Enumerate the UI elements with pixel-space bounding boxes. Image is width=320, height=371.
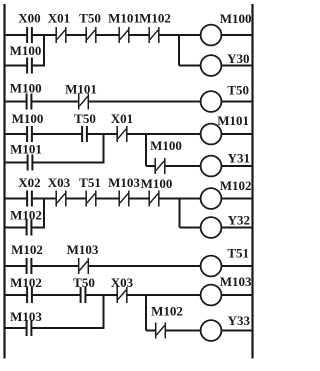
label X01	[48, 11, 70, 26]
contact M103 (NC)	[119, 191, 129, 207]
wire rung4 seg4	[96, 198, 119, 200]
wire rung3 seg1	[5, 133, 28, 135]
label X00	[18, 11, 40, 26]
label X03 rung6	[111, 275, 134, 290]
wire rung2 seg4	[221, 101, 252, 103]
contact X00 (NO)	[27, 27, 32, 43]
wire branch6 seg2	[31, 327, 103, 329]
wire Y33 seg2	[165, 330, 200, 332]
label T51 coil	[227, 246, 249, 261]
contact M101 (NO)	[28, 155, 33, 171]
wire Y33 seg1	[146, 330, 156, 332]
label M101 rung2	[65, 82, 97, 97]
junction branch3 rejoin	[103, 134, 105, 163]
coil Y30	[201, 55, 222, 76]
junction branch1 rejoin	[43, 35, 45, 66]
label M102 coil	[220, 178, 252, 193]
wire rung3 seg4	[127, 133, 201, 135]
contact M102 (NO)	[27, 287, 32, 303]
wire branch4 seg1	[5, 227, 27, 229]
svg-text:M100: M100	[150, 138, 182, 153]
contact M101 (NC)	[79, 94, 89, 110]
wire Y33 seg3	[221, 330, 252, 332]
svg-text:X03: X03	[111, 275, 134, 290]
label T50 coil	[227, 83, 249, 98]
label M101 coil	[217, 113, 249, 128]
wire rung1 seg5	[129, 34, 149, 36]
wire rung6 seg3	[85, 294, 117, 296]
label Y32 coil	[228, 213, 250, 228]
coil M103	[201, 285, 222, 306]
label M102 rung5	[11, 242, 43, 257]
svg-text:M102: M102	[151, 304, 183, 319]
coil Y33	[201, 320, 222, 341]
wire rung2 seg2	[31, 101, 78, 103]
svg-text:M103: M103	[67, 242, 99, 257]
wire rung6 seg4	[127, 294, 201, 296]
svg-text:T51: T51	[79, 175, 101, 190]
svg-text:M102: M102	[139, 11, 171, 26]
wire rung5 seg2	[31, 265, 78, 267]
label M100 coil	[220, 11, 252, 26]
wire rung4 seg2	[32, 198, 56, 200]
svg-text:M102: M102	[220, 178, 252, 193]
contact X03 (NC)	[117, 287, 127, 303]
contact M102 (NC)	[149, 27, 159, 43]
wire rung1 seg1	[5, 34, 28, 36]
label Y31 coil	[228, 151, 250, 166]
left power rail	[3, 4, 5, 359]
contact T50 (NC)	[86, 27, 96, 43]
coil T51	[201, 256, 222, 277]
label T51	[79, 175, 101, 190]
coil M100	[201, 25, 222, 46]
label M102	[139, 11, 171, 26]
coil Y32	[201, 217, 222, 238]
svg-text:M100: M100	[220, 11, 252, 26]
junction Y31 branch drop	[145, 134, 147, 166]
wire branch3 seg1	[5, 162, 28, 164]
label Y30 coil	[227, 51, 249, 66]
contact T51 (NC)	[86, 191, 96, 207]
contact M100 (Y31 branch) (NC)	[155, 158, 165, 174]
wire rung5 seg3	[88, 265, 200, 267]
junction Y33 branch drop	[145, 295, 147, 331]
svg-text:Y33: Y33	[228, 313, 251, 328]
svg-text:T50: T50	[79, 11, 101, 26]
label M100 rung3	[12, 111, 44, 126]
contact T50 (NO)	[81, 287, 86, 303]
label Y33 coil	[228, 313, 251, 328]
svg-text:M103: M103	[220, 274, 252, 289]
wire Y31 seg1	[146, 165, 155, 167]
contact T50 (NO)	[82, 126, 87, 142]
label M103 coil	[220, 274, 252, 289]
svg-text:X00: X00	[18, 11, 40, 26]
label X01 rung3	[111, 111, 133, 126]
coil T50	[201, 91, 222, 112]
svg-text:X03: X03	[48, 175, 71, 190]
contact X03 (NC)	[56, 191, 66, 207]
svg-text:M100: M100	[141, 176, 173, 191]
wire rung5 seg1	[5, 265, 27, 267]
wire rung5 seg4	[221, 265, 252, 267]
wire rung1 seg6	[159, 34, 201, 36]
label X02	[18, 175, 40, 190]
label M101	[108, 11, 140, 26]
label M102 rung6	[10, 275, 42, 290]
wire Y31 seg2	[165, 165, 201, 167]
svg-text:T51: T51	[227, 246, 249, 261]
wire rung3 seg2	[32, 133, 82, 135]
wire rung6 seg5	[221, 294, 252, 296]
contact X01 (NC)	[117, 126, 127, 142]
label M101 branch contact	[10, 142, 42, 157]
wire rung4 seg6	[159, 198, 201, 200]
wire Y32 seg1	[180, 227, 201, 229]
svg-text:Y31: Y31	[228, 151, 250, 166]
wire Y31 seg3	[221, 165, 252, 167]
label T50 rung3	[74, 111, 96, 126]
label X03	[48, 175, 71, 190]
label M103 branch contact	[10, 309, 42, 324]
svg-text:M103: M103	[108, 175, 140, 190]
svg-text:T50: T50	[227, 83, 249, 98]
wire rung1 seg3	[66, 34, 86, 36]
label M100 Y31 branch	[150, 138, 182, 153]
label M100 rung4	[141, 176, 173, 191]
contact M103 (NC)	[79, 258, 89, 274]
label M100 rung2	[10, 81, 42, 96]
wire rung1 seg2	[32, 34, 56, 36]
wire branch3 seg2	[32, 162, 103, 164]
contact M100 (rung4) (NC)	[149, 191, 159, 207]
label T50	[79, 11, 101, 26]
wire rung4 seg3	[66, 198, 86, 200]
contact M100 (NO)	[27, 94, 32, 110]
wire rung1 seg7	[221, 34, 252, 36]
svg-text:T50: T50	[74, 111, 96, 126]
wire rung4 seg7	[221, 198, 252, 200]
contact M102 (NO)	[27, 220, 32, 236]
label M100 branch contact	[10, 43, 42, 58]
svg-text:M101: M101	[108, 11, 140, 26]
wire rung3 seg3	[87, 133, 117, 135]
wire rung3 seg5	[221, 133, 252, 135]
coil M101	[201, 124, 222, 145]
wire rung6 seg2	[32, 294, 81, 296]
contact M103 (NO)	[27, 320, 32, 336]
junction Y30 branch drop	[178, 35, 180, 66]
contact M100 (NO)	[27, 126, 32, 142]
junction branch4 rejoin	[43, 199, 45, 229]
svg-text:M100: M100	[10, 43, 42, 58]
svg-text:M101: M101	[217, 113, 249, 128]
wire branch6 seg1	[5, 327, 27, 329]
wire branch4 seg2	[31, 227, 44, 229]
wire rung1 seg4	[96, 34, 119, 36]
label T50 rung6	[73, 275, 95, 290]
label M103 rung5	[67, 242, 99, 257]
label M102 branch contact	[10, 208, 42, 223]
svg-text:M102: M102	[10, 275, 42, 290]
contact X01 (NC)	[56, 27, 66, 43]
wire rung2 seg1	[5, 101, 27, 103]
svg-text:T50: T50	[73, 275, 95, 290]
right power rail	[251, 4, 253, 359]
svg-text:Y30: Y30	[227, 51, 249, 66]
coil M102	[201, 188, 222, 209]
contact M101 (NC)	[119, 27, 129, 43]
svg-text:M102: M102	[11, 242, 43, 257]
coil Y31	[201, 156, 222, 177]
wire rung6 seg1	[5, 294, 28, 296]
svg-text:M101: M101	[10, 142, 42, 157]
contact M102 (Y33 branch) (NC)	[156, 323, 166, 339]
wire Y30 seg1	[179, 65, 201, 67]
wire branch1 seg2	[32, 65, 44, 67]
svg-text:M100: M100	[12, 111, 44, 126]
label M102 Y33 branch	[151, 304, 183, 319]
junction branch6 rejoin	[103, 295, 105, 329]
svg-text:X02: X02	[18, 175, 40, 190]
wire rung4 seg1	[5, 198, 28, 200]
svg-text:X01: X01	[48, 11, 70, 26]
contact M100 (NO)	[27, 58, 32, 74]
contact M102 (NO)	[27, 258, 32, 274]
wire rung2 seg3	[88, 101, 200, 103]
wire branch1 seg1	[5, 65, 28, 67]
label M103	[108, 175, 140, 190]
contact X02 (NO)	[27, 191, 32, 207]
svg-text:M100: M100	[10, 81, 42, 96]
junction Y32 branch drop	[179, 199, 181, 228]
wire Y30 seg2	[221, 65, 252, 67]
wire Y32 seg2	[221, 227, 252, 229]
svg-text:M101: M101	[65, 82, 97, 97]
svg-text:Y32: Y32	[228, 213, 250, 228]
svg-text:X01: X01	[111, 111, 133, 126]
wire rung4 seg5	[129, 198, 149, 200]
